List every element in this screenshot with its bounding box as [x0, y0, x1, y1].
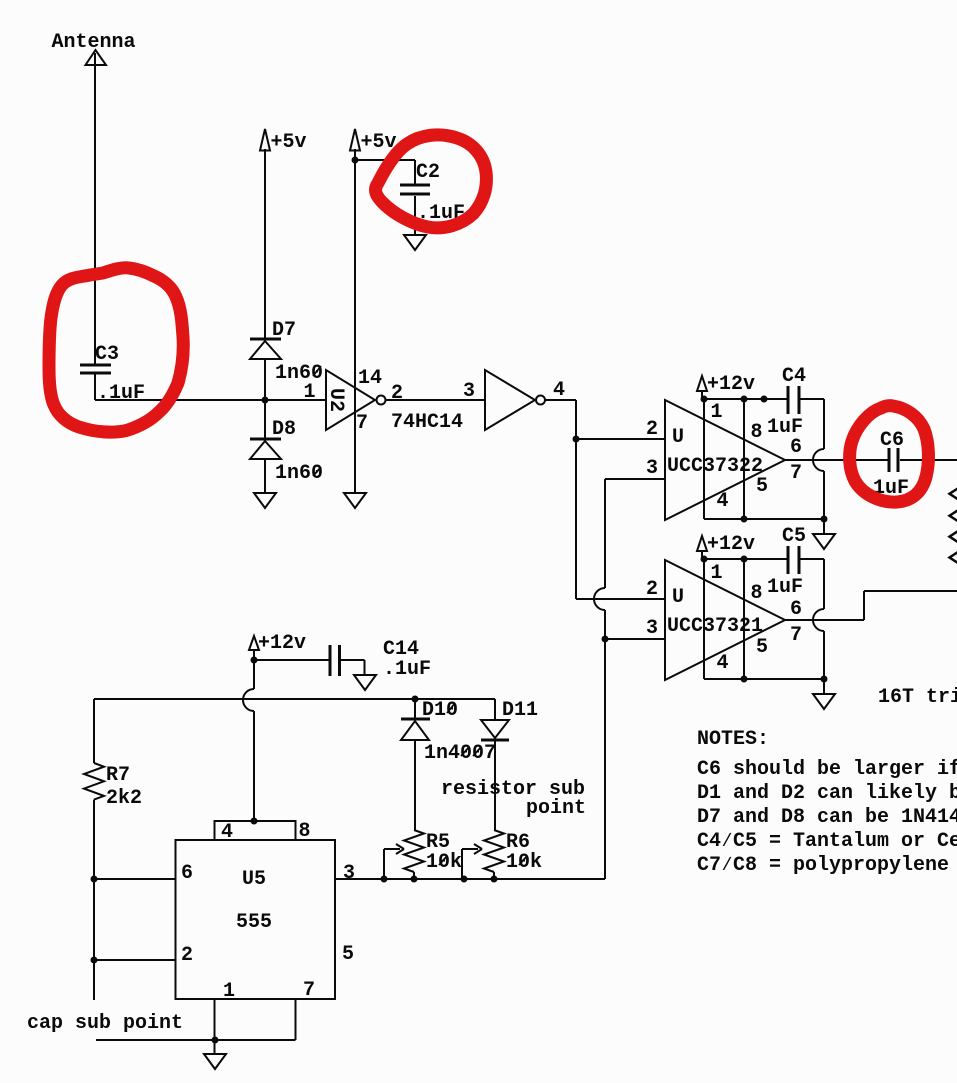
- svg-text:1n60: 1n60: [275, 462, 323, 485]
- svg-text:3: 3: [646, 617, 658, 640]
- svg-text:6: 6: [790, 598, 802, 621]
- svg-text:2: 2: [181, 944, 193, 967]
- svg-text:1: 1: [304, 381, 316, 404]
- svg-text:U: U: [672, 426, 684, 449]
- svg-text:C7∕C8 = polypropylene: C7∕C8 = polypropylene: [697, 854, 949, 877]
- svg-text:1uF: 1uF: [767, 576, 803, 599]
- svg-text:7: 7: [790, 624, 802, 647]
- svg-text:2: 2: [391, 382, 403, 405]
- svg-text:+12v: +12v: [707, 533, 755, 556]
- svg-text:14: 14: [358, 367, 382, 390]
- svg-text:+5v: +5v: [271, 131, 307, 154]
- svg-text:C5: C5: [782, 525, 806, 548]
- svg-text:D7: D7: [272, 319, 296, 342]
- svg-text:8: 8: [751, 421, 763, 444]
- svg-text:5: 5: [756, 636, 768, 659]
- svg-text:D1 and D2 can likely be: D1 and D2 can likely be: [697, 782, 957, 805]
- svg-text:8: 8: [299, 820, 311, 843]
- svg-text:4: 4: [553, 379, 565, 402]
- svg-text:7: 7: [356, 412, 368, 435]
- svg-text:8: 8: [751, 582, 763, 605]
- svg-text:7: 7: [303, 979, 315, 1002]
- svg-text:UCC37321: UCC37321: [667, 615, 763, 638]
- svg-text:NOTES:: NOTES:: [697, 728, 769, 751]
- svg-text:5: 5: [342, 943, 354, 966]
- svg-text:4: 4: [717, 490, 729, 513]
- svg-text:1: 1: [711, 562, 723, 585]
- svg-text:cap sub point: cap sub point: [27, 1012, 183, 1035]
- svg-text:6: 6: [181, 862, 193, 885]
- svg-text:U: U: [672, 586, 684, 609]
- svg-text:4: 4: [221, 821, 233, 844]
- svg-text:4: 4: [717, 652, 729, 675]
- svg-text:2k2: 2k2: [106, 787, 142, 810]
- svg-text:C3: C3: [95, 343, 119, 366]
- svg-text:3: 3: [343, 862, 355, 885]
- svg-text:Antenna: Antenna: [52, 31, 136, 54]
- svg-text:6: 6: [790, 436, 802, 459]
- svg-text:74HC14: 74HC14: [391, 411, 463, 434]
- svg-text:2: 2: [646, 578, 658, 601]
- svg-text:C4∕C5 = Tantalum or Cer: C4∕C5 = Tantalum or Cer: [697, 830, 957, 853]
- svg-text:555: 555: [236, 911, 272, 934]
- svg-text:C4: C4: [782, 365, 806, 388]
- svg-text:+12v: +12v: [707, 373, 755, 396]
- svg-text:UCC37322: UCC37322: [667, 455, 763, 478]
- svg-text:3: 3: [463, 380, 475, 403]
- svg-text:10k: 10k: [426, 851, 462, 874]
- svg-text:7: 7: [790, 462, 802, 485]
- svg-text:1: 1: [711, 401, 723, 424]
- svg-text:point: point: [526, 797, 586, 820]
- svg-text:1n60: 1n60: [275, 362, 323, 385]
- svg-text:D7 and D8 can be 1N4148: D7 and D8 can be 1N4148: [697, 806, 957, 829]
- svg-text:D10: D10: [422, 699, 458, 722]
- svg-text:U5: U5: [242, 868, 266, 891]
- svg-text:.1uF: .1uF: [97, 382, 145, 405]
- svg-text:+12v: +12v: [258, 632, 306, 655]
- svg-text:C6: C6: [880, 429, 904, 452]
- svg-text:D8: D8: [272, 418, 296, 441]
- svg-text:16T trif: 16T trif: [878, 686, 957, 709]
- svg-text:R7: R7: [106, 764, 130, 787]
- svg-text:1n4007: 1n4007: [424, 742, 496, 765]
- svg-text:5: 5: [756, 475, 768, 498]
- svg-text:10k: 10k: [506, 851, 542, 874]
- svg-text:2: 2: [646, 418, 658, 441]
- svg-text:.1uF: .1uF: [383, 658, 431, 681]
- svg-text:1: 1: [223, 980, 235, 1003]
- svg-text:D11: D11: [502, 699, 538, 722]
- svg-text:3: 3: [646, 457, 658, 480]
- svg-text:C6 should be larger if: C6 should be larger if: [697, 758, 957, 781]
- svg-text:C2: C2: [416, 161, 440, 184]
- svg-text:U2: U2: [324, 388, 347, 412]
